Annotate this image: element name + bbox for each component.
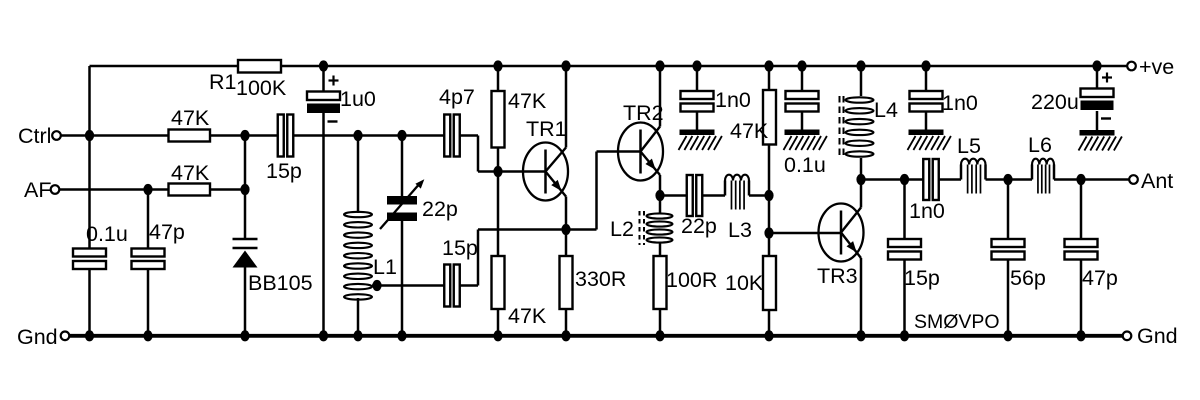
svg-text:330R: 330R <box>575 267 626 291</box>
svg-text:L5: L5 <box>957 134 981 158</box>
svg-text:Ant: Ant <box>1141 169 1173 193</box>
svg-text:+ve: +ve <box>1139 55 1174 79</box>
svg-text:1n0: 1n0 <box>942 91 978 115</box>
svg-text:47K: 47K <box>508 89 547 113</box>
svg-text:47K: 47K <box>730 119 769 143</box>
svg-text:47K: 47K <box>171 161 210 185</box>
svg-text:BB105: BB105 <box>248 271 313 295</box>
svg-text:L3: L3 <box>728 218 752 242</box>
svg-text:10K: 10K <box>725 271 764 295</box>
svg-text:0.1u: 0.1u <box>784 153 826 177</box>
svg-text:15p: 15p <box>442 236 478 260</box>
svg-text:L2: L2 <box>610 217 634 241</box>
svg-text:15p: 15p <box>266 159 302 183</box>
svg-text:47K: 47K <box>508 304 547 328</box>
svg-text:47K: 47K <box>171 106 210 130</box>
svg-text:SMØVPO: SMØVPO <box>914 311 1000 333</box>
svg-text:22p: 22p <box>422 197 458 221</box>
svg-text:220u: 220u <box>1031 90 1079 114</box>
svg-text:1n0: 1n0 <box>909 199 945 223</box>
svg-text:TR2: TR2 <box>623 101 664 125</box>
svg-text:Ctrl: Ctrl <box>18 124 51 148</box>
svg-text:56p: 56p <box>1010 266 1046 290</box>
svg-text:1u0: 1u0 <box>340 87 376 111</box>
svg-text:R1: R1 <box>209 70 236 94</box>
svg-text:TR1: TR1 <box>526 117 567 141</box>
svg-text:TR3: TR3 <box>817 264 858 288</box>
svg-text:0.1u: 0.1u <box>86 222 128 246</box>
svg-text:100K: 100K <box>236 76 287 100</box>
svg-text:L6: L6 <box>1028 133 1052 157</box>
svg-text:15p: 15p <box>904 266 940 290</box>
svg-text:4p7: 4p7 <box>439 85 475 109</box>
svg-text:L1: L1 <box>373 255 397 279</box>
svg-text:AF: AF <box>24 178 51 202</box>
svg-text:47p: 47p <box>1082 266 1118 290</box>
svg-text:47p: 47p <box>149 220 185 244</box>
svg-text:Gnd: Gnd <box>1137 324 1178 348</box>
svg-text:22p: 22p <box>681 214 717 238</box>
svg-text:L4: L4 <box>874 98 898 122</box>
svg-text:100R: 100R <box>666 268 717 292</box>
svg-text:1n0: 1n0 <box>715 88 751 112</box>
svg-text:Gnd: Gnd <box>17 325 58 349</box>
